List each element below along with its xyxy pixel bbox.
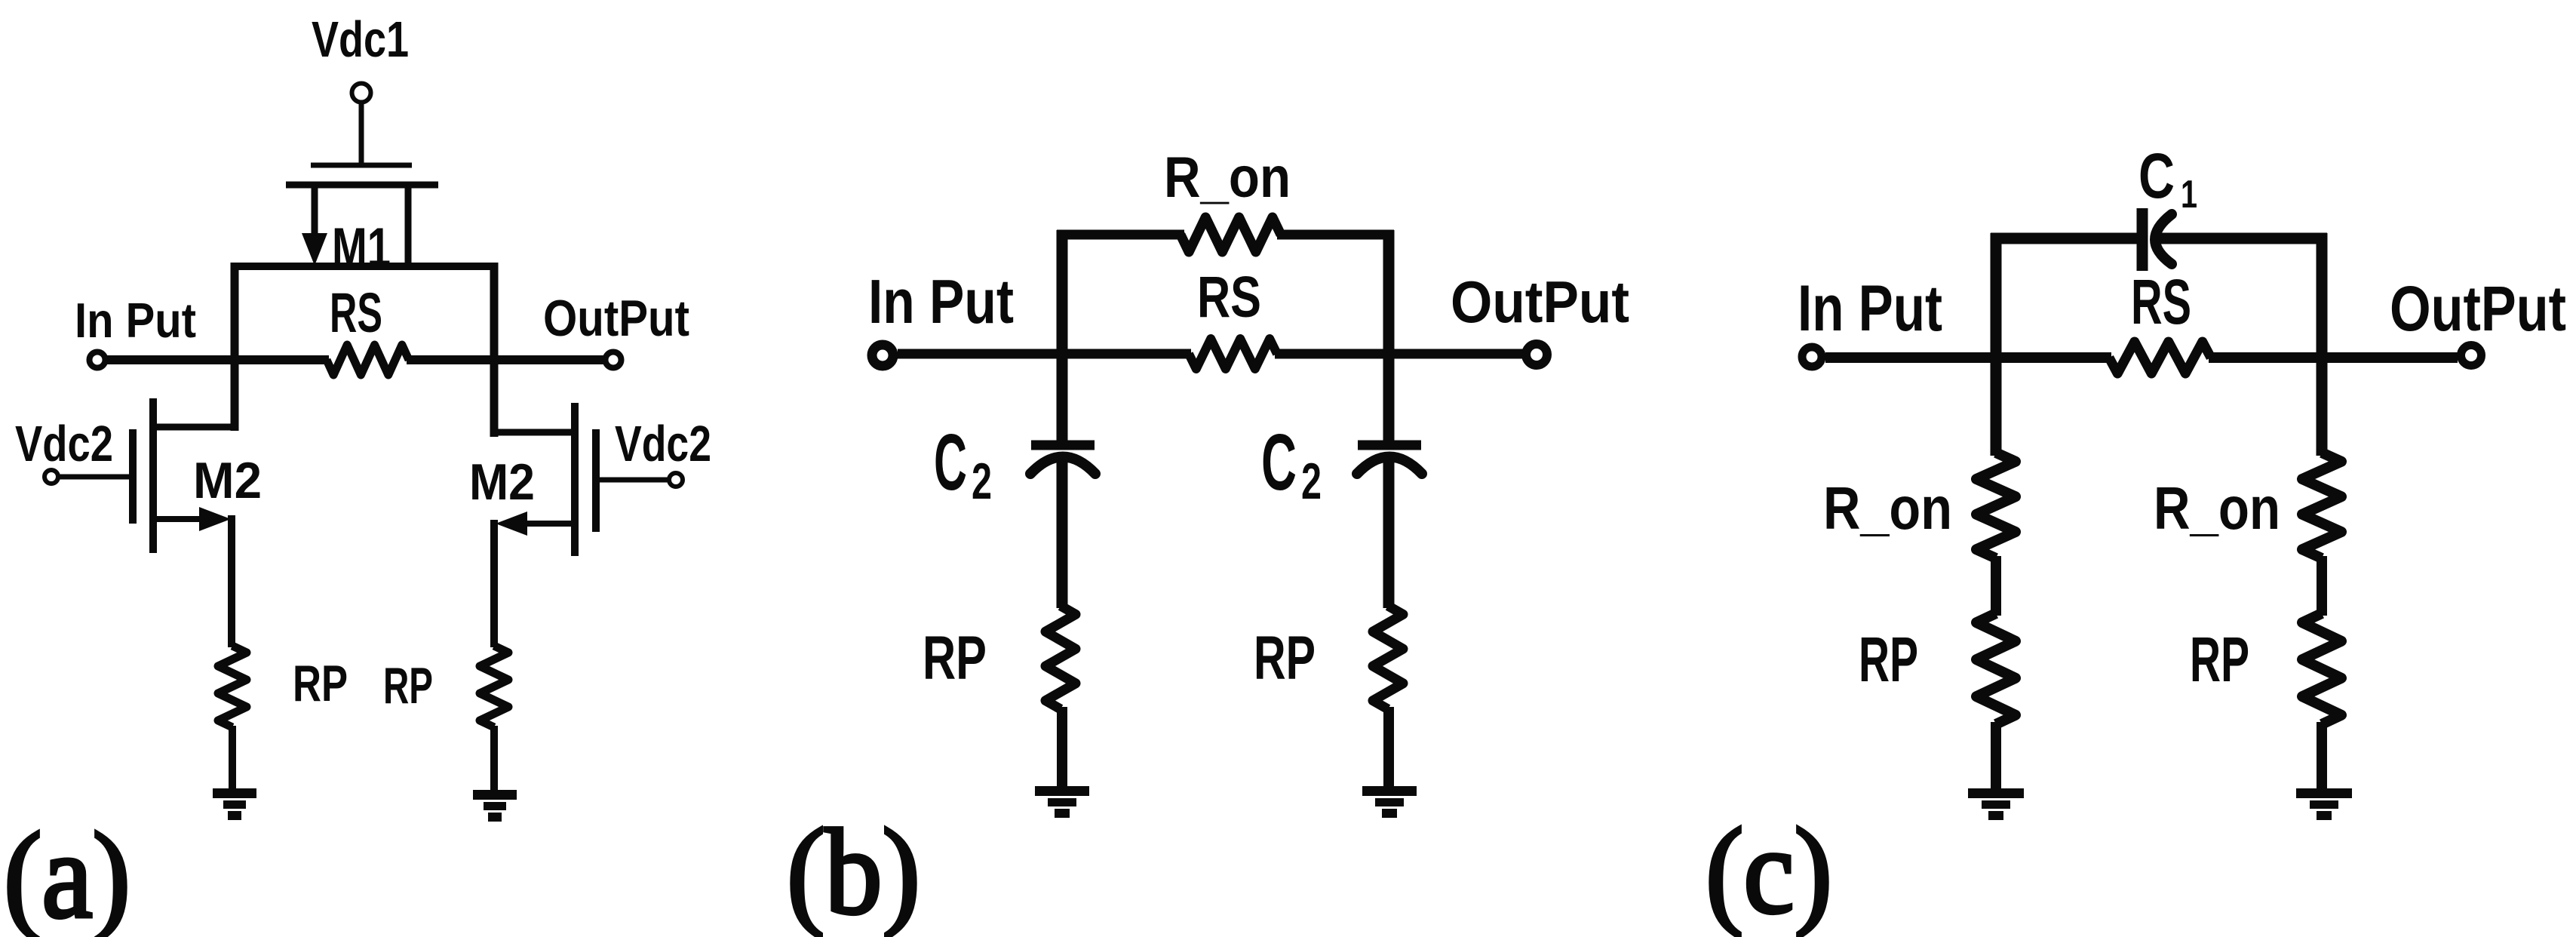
arrow right M2 source <box>496 512 527 536</box>
svg-text:In Put: In Put <box>868 266 1014 336</box>
svg-text:RP: RP <box>293 655 348 712</box>
arrow left M2 source <box>199 507 231 531</box>
resistor R_on left (c) <box>1976 453 2016 558</box>
ground left (b) <box>1035 791 1089 814</box>
terminal Vdc2 left <box>45 470 58 484</box>
wire left Vdc2 gate wire <box>60 475 133 480</box>
terminal Vdc2 right <box>669 473 683 487</box>
capacitor C2 right curved plate <box>1357 457 1422 475</box>
resistor RS (c) <box>2109 342 2211 373</box>
wire left drop to input node <box>231 263 239 431</box>
label RS (a) <box>330 281 382 344</box>
label OutPut (a) <box>543 290 689 347</box>
label RP left (b) <box>923 624 987 693</box>
label Vdc2 right <box>615 416 711 472</box>
label RP left (a) <box>293 655 348 712</box>
resistor R_on right (c) <box>2302 453 2341 558</box>
transistor M2 left gate bar <box>129 429 137 524</box>
ground left (a) <box>213 794 256 816</box>
svg-text:(c): (c) <box>1706 804 1832 937</box>
svg-text:RS: RS <box>1197 265 1261 330</box>
wire RP right to ground (c) <box>2317 722 2327 792</box>
label M2 right <box>469 453 535 511</box>
label RS (c) <box>2131 266 2191 337</box>
label In Put (b) <box>868 266 1014 336</box>
svg-text:C: C <box>1261 418 1297 507</box>
svg-text:Vdc1: Vdc1 <box>312 11 409 68</box>
transistor M2 right gate bar <box>592 429 600 532</box>
input terminal (b) <box>872 345 893 366</box>
svg-text:2: 2 <box>972 453 992 510</box>
wire between R_on and RP right (c) <box>2317 556 2327 616</box>
label RS (b) <box>1197 265 1261 330</box>
resistor RP right (a) <box>480 646 508 727</box>
transistor M1 channel bar <box>286 182 438 189</box>
svg-text:OutPut: OutPut <box>543 290 689 347</box>
label M1 <box>332 217 391 278</box>
label OutPut (c) <box>2390 273 2566 344</box>
svg-text:M2: M2 <box>469 453 535 511</box>
resistor R_on (b) <box>1181 217 1281 252</box>
svg-text:RS: RS <box>330 281 382 344</box>
output terminal (a) <box>606 352 622 368</box>
wire left M2 source <box>153 516 204 522</box>
label Vdc2 left <box>15 416 113 472</box>
wire RP left to ground (b) <box>1057 707 1067 789</box>
input terminal (a) <box>90 352 106 368</box>
resistor RP right (b) <box>1373 606 1403 709</box>
wire main bus right segment (b) <box>1275 349 1523 359</box>
wire right M2 source <box>524 521 575 527</box>
wire right branch vertical (b) <box>1383 230 1395 441</box>
wire M1 shoulder rail <box>233 263 496 270</box>
power terminal Vdc1 <box>352 84 371 103</box>
svg-text:RP: RP <box>383 657 433 714</box>
label RP right (a) <box>383 657 433 714</box>
capacitor C1 curved plate <box>2155 214 2172 264</box>
wire left branch vertical (c) <box>1991 233 2002 456</box>
wire right Vdc2 gate wire <box>596 478 668 483</box>
transistor M1 gate bar <box>311 163 412 168</box>
svg-text:RP: RP <box>923 624 987 693</box>
output terminal (c) <box>2461 346 2482 366</box>
wire right branch vertical (c) <box>2317 233 2328 456</box>
wire Vdc1 to M1 gate <box>359 103 364 167</box>
svg-text:R_on: R_on <box>2154 475 2280 542</box>
label C2 right <box>1261 418 1322 510</box>
label In Put (c) <box>1798 272 1942 345</box>
svg-text:In Put: In Put <box>75 293 196 348</box>
ground right (a) <box>473 795 517 818</box>
label In Put (a) <box>75 293 196 348</box>
wire C2 right to RP right (b) <box>1383 453 1395 608</box>
wire main bus left segment (c) <box>1825 352 2111 363</box>
svg-text:RS: RS <box>2131 266 2191 337</box>
resistor RS (a) <box>327 345 409 375</box>
capacitor C2 left curved plate <box>1030 457 1095 475</box>
resistor RP left (c) <box>1976 613 2016 724</box>
svg-text:In Put: In Put <box>1798 272 1942 345</box>
wire left M2 source drop <box>228 515 235 647</box>
resistor RP left (b) <box>1045 606 1076 709</box>
label RP right (b) <box>1254 624 1316 693</box>
label (c) <box>1706 804 1832 937</box>
wire main bus right segment (a) <box>407 355 603 364</box>
wire RP left to ground (c) <box>1991 722 2001 792</box>
label M2 left <box>193 452 262 509</box>
svg-text:Vdc2: Vdc2 <box>15 416 113 472</box>
svg-text:2: 2 <box>1301 453 1322 510</box>
resistor RS (b) <box>1189 339 1277 369</box>
output terminal (b) <box>1526 344 1547 365</box>
wire top rail right (b) <box>1277 230 1394 240</box>
transistor M1 left leg wire <box>312 185 318 240</box>
wire top rail left (c) <box>1991 233 2138 244</box>
transistor M2 right channel bar <box>571 403 579 556</box>
svg-text:M2: M2 <box>193 452 262 509</box>
resistor RP right (c) <box>2302 613 2341 724</box>
wire top rail left (b) <box>1057 230 1184 240</box>
label C2 left <box>934 418 992 510</box>
wire right M2 source drop <box>490 520 498 647</box>
capacitor C2 left top plate <box>1031 441 1095 450</box>
transistor M2 left channel bar <box>149 398 157 553</box>
label Vdc1 <box>312 11 409 68</box>
wire RP right to ground (b) <box>1383 707 1394 789</box>
label R_on left (c) <box>1823 475 1952 542</box>
label RP right (c) <box>2190 624 2249 695</box>
wire right M2 drain step <box>494 429 578 436</box>
ground left (c) <box>1968 794 2024 816</box>
wire main bus left segment (b) <box>898 349 1191 359</box>
label RP left (c) <box>1859 624 1918 695</box>
ground right (b) <box>1362 791 1417 814</box>
svg-text:C: C <box>934 418 967 507</box>
wire right drop to output node <box>490 263 499 437</box>
svg-text:Vdc2: Vdc2 <box>615 416 711 472</box>
svg-text:C: C <box>2138 140 2175 211</box>
label R_on right (c) <box>2154 475 2280 542</box>
svg-text:RP: RP <box>1859 624 1918 695</box>
label R_on (b) <box>1164 146 1291 210</box>
ground right (c) <box>2296 794 2352 816</box>
transistor M1 right leg wire <box>405 185 412 266</box>
svg-text:OutPut: OutPut <box>2390 273 2566 344</box>
svg-text:(b): (b) <box>787 805 920 937</box>
label (b) <box>787 805 920 937</box>
capacitor C2 right top plate <box>1358 441 1421 450</box>
resistor RP left (a) <box>218 646 247 727</box>
wire left branch vertical (b) <box>1057 230 1068 441</box>
wire main bus right segment (c) <box>2209 352 2458 363</box>
input terminal (c) <box>1802 347 1822 367</box>
wire main bus left segment (a) <box>107 355 329 364</box>
transistor M1 arrow <box>302 233 327 266</box>
wire between R_on and RP left (c) <box>1991 556 2001 616</box>
wire top rail right (c) <box>2156 233 2327 244</box>
wire C2 left to RP left (b) <box>1057 453 1068 608</box>
capacitor C1 straight plate <box>2137 208 2148 271</box>
svg-text:R_on: R_on <box>1823 475 1952 542</box>
wire RP left to ground (a) <box>229 726 236 791</box>
label OutPut (b) <box>1451 269 1629 335</box>
svg-text:(a): (a) <box>4 809 130 937</box>
svg-text:OutPut: OutPut <box>1451 269 1629 335</box>
label (a) <box>4 809 130 937</box>
svg-text:1: 1 <box>2181 173 2197 217</box>
label C1 <box>2138 140 2197 217</box>
wire left M2 drain step <box>151 424 235 431</box>
svg-text:RP: RP <box>2190 624 2249 695</box>
svg-text:R_on: R_on <box>1164 146 1291 210</box>
svg-text:RP: RP <box>1254 624 1316 693</box>
wire RP right to ground (a) <box>490 726 498 792</box>
